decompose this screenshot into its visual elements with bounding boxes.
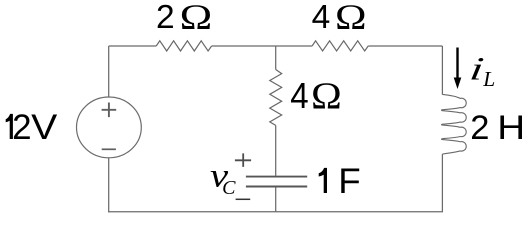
svg-text:V: V xyxy=(31,107,57,147)
svg-text:F: F xyxy=(338,162,360,201)
wire right vertical lower xyxy=(441,154,443,212)
resistor R1 2ohm zigzag xyxy=(156,41,211,51)
svg-text:2: 2 xyxy=(156,0,175,36)
svg-text:4: 4 xyxy=(312,0,331,36)
arrow iL current xyxy=(456,48,458,79)
wire top-left segment xyxy=(109,45,157,47)
svg-text:Ω: Ω xyxy=(335,0,367,37)
svg-text:L: L xyxy=(482,67,495,91)
capacitor plus sign xyxy=(235,153,251,167)
wire capacitor to bottom xyxy=(275,187,277,211)
svg-text:Ω: Ω xyxy=(180,0,213,37)
wire top-middle segment xyxy=(212,45,313,47)
wire left vertical upper xyxy=(108,46,110,97)
wire bottom xyxy=(108,211,443,213)
wire left vertical lower xyxy=(108,158,110,213)
label 2H letter H xyxy=(497,108,525,147)
capacitor minus sign xyxy=(236,198,251,200)
label 12V digit 1 xyxy=(6,114,13,139)
label 1F digit 1 xyxy=(319,168,327,193)
resistor R3 4ohm vertical zigzag xyxy=(270,70,282,126)
source V1 ellipse xyxy=(77,97,142,158)
resistor R2 4ohm zigzag xyxy=(312,41,368,51)
svg-text:2: 2 xyxy=(12,108,31,147)
label vC xyxy=(210,158,228,195)
label 4ohm R3 xyxy=(290,77,308,117)
svg-text:H: H xyxy=(497,108,525,147)
capacitor C1 bottom plate xyxy=(246,186,307,188)
source plus sign xyxy=(102,103,117,118)
svg-text:4: 4 xyxy=(290,77,308,117)
svg-text:C: C xyxy=(222,177,236,199)
label iL xyxy=(468,51,487,87)
svg-text:2: 2 xyxy=(470,109,489,147)
source minus sign xyxy=(102,148,116,150)
label 1F letter F xyxy=(338,162,360,201)
svg-text:Ω: Ω xyxy=(311,75,342,117)
wire middle to capacitor xyxy=(275,125,277,175)
wire middle upper xyxy=(275,46,277,70)
inductor L1 coil xyxy=(442,94,467,154)
label 12V letter V xyxy=(31,107,57,147)
capacitor C1 top plate xyxy=(246,176,307,178)
wire right vertical upper xyxy=(441,46,443,95)
wire top-right segment xyxy=(368,45,442,47)
